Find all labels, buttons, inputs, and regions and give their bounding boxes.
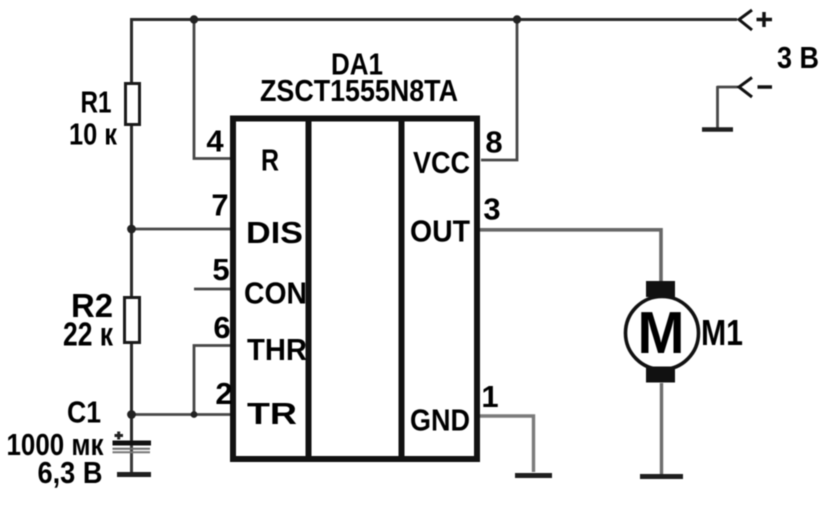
svg-text:GND: GND [410, 403, 470, 438]
svg-text:3: 3 [483, 192, 500, 227]
svg-text:ZSCT1555N8TA: ZSCT1555N8TA [260, 73, 458, 108]
svg-text:DIS: DIS [246, 215, 303, 250]
svg-text:5: 5 [212, 252, 229, 287]
svg-text:22 к: 22 к [63, 316, 113, 353]
svg-text:4: 4 [206, 124, 224, 159]
svg-text:10 к: 10 к [69, 117, 117, 152]
svg-text:TR: TR [247, 396, 297, 431]
svg-text:8: 8 [485, 125, 502, 160]
svg-text:6,3 В: 6,3 В [38, 455, 103, 490]
svg-text:THR: THR [247, 332, 307, 367]
svg-text:OUT: OUT [410, 214, 470, 249]
svg-text:CON: CON [244, 276, 307, 311]
svg-text:1: 1 [481, 379, 498, 414]
svg-text:6: 6 [213, 310, 230, 345]
svg-text:2: 2 [215, 376, 232, 411]
svg-text:7: 7 [211, 188, 228, 223]
svg-text:M1: M1 [701, 312, 743, 353]
svg-text:R: R [261, 143, 279, 178]
svg-text:R1: R1 [81, 85, 112, 120]
svg-text:3 В: 3 В [777, 40, 819, 75]
svg-text:VCC: VCC [413, 145, 470, 180]
svg-text:M: M [638, 300, 685, 366]
svg-text:C1: C1 [67, 395, 101, 430]
